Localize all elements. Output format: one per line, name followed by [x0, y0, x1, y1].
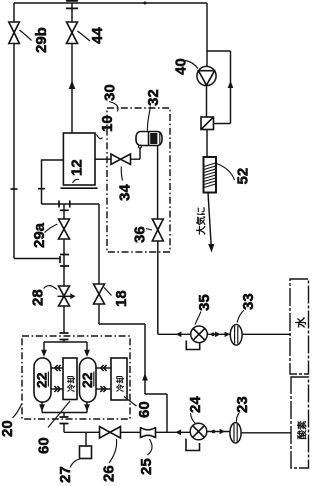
leader 52: [217, 164, 235, 181]
leader 32: [147, 107, 150, 131]
roller meter 33: [230, 325, 242, 346]
leader 29b: [20, 30, 32, 41]
check valve square: [201, 117, 214, 130]
vessel 22b bottom stub: [86, 402, 88, 413]
svg-text:20: 20: [0, 420, 16, 437]
flow arrow left toward riser: [176, 332, 182, 338]
svg-text:40: 40: [173, 58, 190, 75]
svg-text:28: 28: [30, 289, 47, 306]
wire top header inside box 20: [44, 342, 87, 351]
pump 24: [190, 423, 207, 440]
wire bottom header inside box 20: [42, 413, 87, 417]
pump 40: [197, 66, 216, 85]
end tick of left horizontal: [59, 256, 61, 263]
wire between valve 26 and meter 25: [121, 431, 141, 433]
junction dot after pump 24: [212, 430, 216, 434]
wire top bus: [14, 2, 207, 4]
valve 34: [111, 154, 131, 164]
valve 28: [59, 286, 70, 306]
svg-text:24: 24: [187, 396, 204, 413]
sensor box 27: [80, 446, 92, 459]
circulation line 22b-60b bottom: [96, 388, 111, 390]
tick on left loop: [38, 188, 45, 190]
svg-text:33: 33: [240, 293, 257, 310]
valve 36: [152, 219, 163, 241]
svg-text:32: 32: [145, 89, 162, 106]
union ticks at box 20 bottom: [60, 417, 69, 424]
wire meter 23 to oxygen tank: [241, 432, 291, 434]
flow arrow up into valve 44: [69, 81, 76, 90]
svg-text:30: 30: [102, 84, 119, 101]
chevrons left top pair a: [55, 365, 61, 371]
filter 52 hatching: [204, 163, 216, 188]
svg-text:23: 23: [234, 396, 251, 413]
circulation line 22a-60a top: [51, 367, 63, 369]
arrow into vessel 22b: [84, 350, 90, 357]
valve 29b: [9, 22, 20, 44]
leader 34: [121, 167, 122, 181]
pump 35: [191, 326, 208, 343]
circulation line 22b-60b top: [96, 367, 111, 369]
wire valve 18 branch: [99, 204, 145, 394]
vessel 22a bottom stub: [41, 402, 43, 413]
vessel 22a: [34, 358, 51, 402]
leader 44: [78, 31, 91, 41]
wire sprayer 32 down to valve 36: [157, 146, 159, 220]
svg-text:29a: 29a: [31, 222, 48, 248]
svg-text:22: 22: [79, 372, 95, 388]
leader 60a (long diagonal): [48, 401, 70, 428]
wire valve column lower: [63, 306, 65, 342]
tick on left vertical: [11, 188, 18, 190]
roller meter 23: [230, 423, 241, 443]
wire check valve to filter 52: [206, 130, 208, 158]
svg-text:大気に: 大気に: [196, 206, 208, 235]
leader 33: [237, 310, 244, 323]
svg-text:27: 27: [57, 466, 74, 483]
svg-text:18: 18: [113, 290, 130, 307]
pump 24 mount: [186, 439, 200, 451]
cooler 60b: [111, 358, 127, 400]
svg-text:60: 60: [36, 437, 53, 454]
wire left main vertical: [13, 3, 15, 259]
svg-text:52: 52: [235, 168, 252, 185]
water tank: [290, 279, 309, 374]
leader 27: [70, 459, 81, 468]
valve 26: [100, 427, 121, 439]
svg-text:酸素: 酸素: [297, 420, 309, 440]
union ticks at box 20 top: [60, 333, 69, 340]
leader 18: [104, 288, 112, 296]
pump 35 mount: [186, 341, 199, 350]
svg-text:冷却: 冷却: [66, 376, 76, 392]
wire meter 25 to pump 24: [156, 431, 191, 433]
leader 60b: [124, 397, 137, 407]
chevrons left top pair b: [101, 365, 107, 371]
wire box10 left loop: [42, 160, 64, 204]
arrow down from 22a: [39, 404, 45, 411]
tick under tee: [60, 209, 69, 211]
svg-text:35: 35: [196, 294, 213, 311]
flow meter 25: [141, 427, 156, 438]
port circle on sprayer 32: [139, 145, 142, 148]
underline of 22b: [93, 372, 95, 387]
union ticks on y204 header: [59, 201, 70, 208]
leader 36: [146, 229, 152, 231]
stub to sensor 27: [85, 432, 87, 446]
cooler 60a: [63, 358, 77, 400]
wire valve 34 to sprayer 32: [131, 148, 141, 159]
valve 18: [94, 284, 105, 304]
sprayer motor 32: [136, 132, 162, 146]
svg-text:12: 12: [69, 159, 86, 176]
vessel 22b: [80, 358, 97, 402]
leader 29a: [45, 224, 58, 233]
flow arrow 1 toward meter 33: [215, 332, 220, 338]
vent wire to atmosphere: [208, 193, 211, 247]
svg-text:60: 60: [136, 401, 153, 418]
flange ticks at top of valve 44 column: [66, 1, 78, 8]
arrow down from 22b: [84, 404, 90, 411]
junction dot on top bus: [144, 2, 147, 5]
wire valve 36 down to pump 35: [158, 241, 191, 334]
valve 29a: [59, 219, 70, 239]
wire top bus corner to pump 40: [206, 3, 208, 66]
arrow into vessel 22a: [41, 350, 47, 357]
union ticks above valve 28: [60, 255, 69, 267]
chevrons right bottom pair b: [100, 386, 106, 392]
leader 20: [13, 404, 22, 419]
arrow through valve 28: [58, 295, 71, 297]
reactor box 10: [63, 133, 95, 185]
wire valve 44 column: [71, 3, 73, 133]
vent arrowhead: [208, 244, 214, 253]
svg-text:29b: 29b: [33, 27, 50, 53]
base line under box 10: [61, 187, 98, 189]
leader 40: [185, 61, 198, 69]
wire pump 24 to tank: [207, 431, 230, 433]
svg-text:22: 22: [34, 372, 50, 388]
wire box10 to valve 34: [95, 158, 111, 160]
svg-text:34: 34: [117, 184, 134, 201]
wire horizontal header y204: [42, 203, 100, 205]
flow arrow toward meter 23: [220, 429, 225, 435]
leader tilde of 10: [97, 135, 103, 139]
filter 52: [204, 157, 217, 193]
wire pump 35 to water tank: [207, 333, 291, 335]
svg-text:冷却: 冷却: [115, 376, 125, 392]
flow arrow up on riser: [142, 373, 148, 381]
leader 30: [109, 102, 118, 112]
leader 23: [236, 413, 239, 422]
svg-text:44: 44: [89, 27, 106, 44]
flow arrow 2 toward meter 33: [225, 332, 230, 338]
leader 26: [109, 439, 117, 463]
svg-text:25: 25: [138, 458, 155, 475]
wire exit to bottom main line: [64, 424, 100, 433]
dashed box 30: [107, 108, 170, 252]
leader 28: [44, 286, 58, 290]
leader 25: [148, 439, 153, 455]
circulation line 22a-60a bottom: [51, 388, 63, 390]
oxygen tank: [291, 377, 309, 468]
dashed box 20: [22, 336, 130, 419]
leader 35: [195, 312, 201, 325]
wire main valve column upper: [63, 204, 65, 286]
valve 44: [67, 22, 78, 44]
underline of 22a: [47, 372, 49, 387]
flow arrow up on bypass: [228, 81, 234, 89]
wire from left vertical to union: [14, 258, 60, 260]
flow arrow left of pump 24: [175, 429, 181, 435]
leader tilde of 12: [73, 179, 80, 183]
svg-text:26: 26: [101, 465, 118, 482]
svg-text:水: 水: [294, 316, 308, 328]
wire pump 40 to check valve: [206, 86, 208, 117]
wire drop into bottom line: [145, 394, 167, 432]
leader 24: [191, 413, 196, 424]
chevrons right bottom pair a: [54, 386, 60, 392]
svg-text:36: 36: [132, 226, 149, 243]
bypass loop wire: [207, 51, 231, 124]
junction dot after pump 35: [211, 333, 215, 337]
